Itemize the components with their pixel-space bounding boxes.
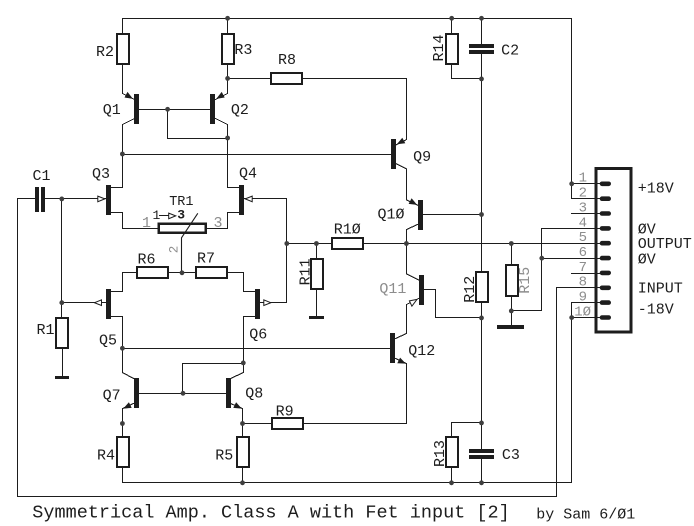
svg-text:1: 1	[153, 208, 161, 223]
svg-text:4: 4	[579, 215, 587, 231]
svg-text:Q2: Q2	[231, 102, 249, 119]
svg-text:1: 1	[142, 215, 151, 232]
svg-text:Q1: Q1	[103, 102, 121, 119]
svg-text:R6: R6	[138, 252, 156, 269]
svg-text:5: 5	[579, 230, 587, 246]
svg-text:+18V: +18V	[638, 181, 674, 198]
svg-text:R14: R14	[431, 34, 448, 61]
svg-text:Q12: Q12	[408, 343, 435, 360]
svg-text:R8: R8	[278, 52, 296, 69]
svg-text:Q4: Q4	[239, 166, 257, 183]
svg-text:R11: R11	[297, 258, 314, 285]
svg-text:Q1Ø: Q1Ø	[378, 207, 405, 224]
svg-text:-18V: -18V	[638, 302, 674, 319]
svg-text:6: 6	[579, 245, 587, 261]
svg-text:R13: R13	[432, 440, 449, 467]
svg-text:Symmetrical Amp. Class A with: Symmetrical Amp. Class A with Fet input …	[32, 503, 509, 524]
svg-text:by Sam 6/Ø1: by Sam 6/Ø1	[536, 507, 635, 524]
svg-text:3: 3	[579, 200, 587, 216]
svg-text:Q11: Q11	[379, 281, 406, 298]
svg-text:2: 2	[579, 186, 587, 202]
svg-text:3: 3	[214, 215, 223, 232]
svg-text:R12: R12	[462, 276, 479, 303]
svg-text:Q9: Q9	[413, 149, 431, 166]
svg-text:7: 7	[579, 260, 587, 276]
svg-text:2: 2	[167, 246, 181, 254]
svg-text:INPUT: INPUT	[638, 281, 683, 298]
svg-text:R1: R1	[37, 322, 55, 339]
svg-text:C3: C3	[502, 447, 520, 464]
svg-text:Q7: Q7	[103, 388, 121, 405]
svg-text:R1Ø: R1Ø	[334, 221, 361, 238]
svg-text:C1: C1	[33, 168, 51, 185]
svg-text:R15: R15	[517, 267, 534, 294]
svg-text:Q6: Q6	[249, 327, 267, 344]
svg-text:9: 9	[579, 290, 587, 306]
svg-text:8: 8	[579, 275, 587, 291]
svg-text:C2: C2	[501, 43, 519, 60]
svg-text:R4: R4	[97, 447, 115, 464]
svg-text:R3: R3	[234, 42, 252, 59]
svg-text:Q5: Q5	[99, 333, 117, 350]
svg-text:3: 3	[177, 208, 185, 223]
svg-text:R2: R2	[96, 44, 114, 61]
svg-text:R5: R5	[215, 447, 233, 464]
svg-text:R9: R9	[276, 404, 294, 421]
svg-text:Q3: Q3	[92, 166, 110, 183]
svg-text:Q8: Q8	[245, 386, 263, 403]
svg-text:R7: R7	[197, 251, 215, 268]
svg-text:1Ø: 1Ø	[574, 304, 591, 320]
svg-text:1: 1	[579, 171, 587, 187]
svg-text:ØV: ØV	[638, 251, 656, 268]
